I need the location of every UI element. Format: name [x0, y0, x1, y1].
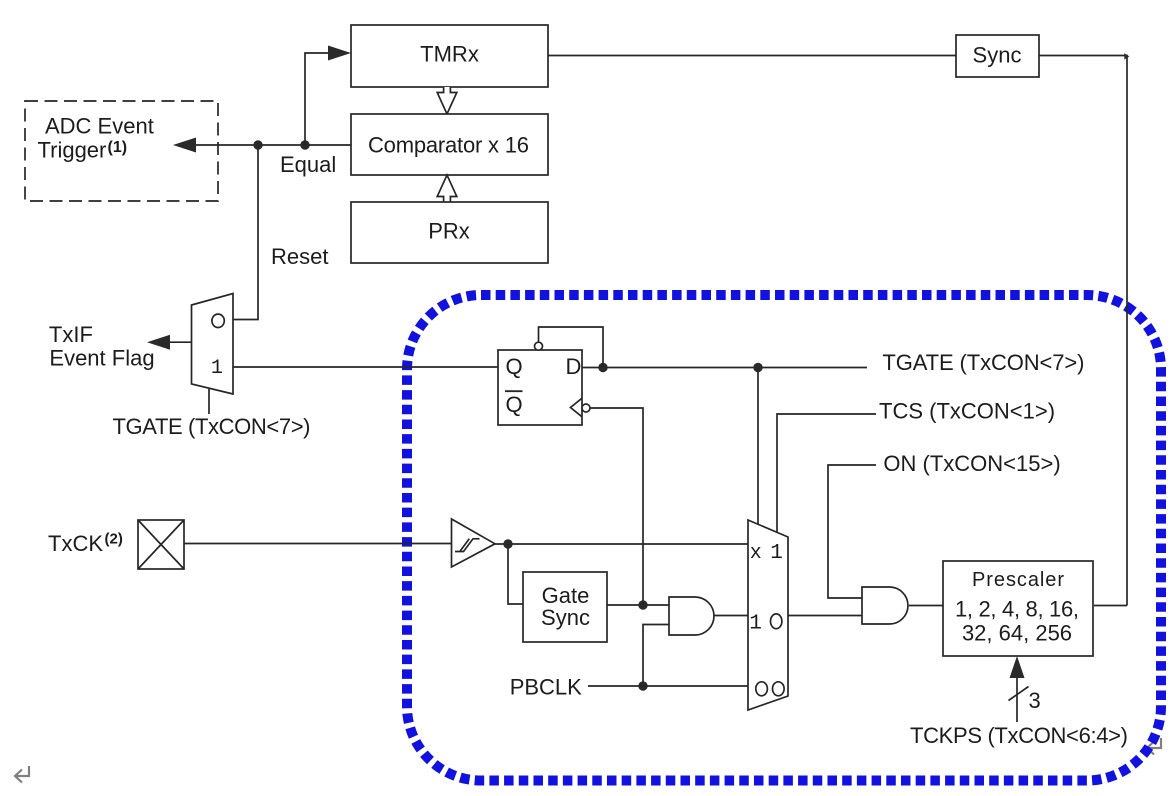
wire Reset to TxIF mux input 0: [233, 145, 258, 320]
wire TGATE select into TxIF mux: [208, 389, 210, 414]
svg-text:Trigger: Trigger: [38, 138, 107, 163]
wire Schmitt output to clock mux x1: [495, 543, 748, 545]
open arrow PRx to Comparator: [437, 175, 457, 202]
wire Prescaler output to right side: [1094, 605, 1127, 607]
mux M1 TxIF source select: [192, 294, 234, 395]
Prescaler box: [943, 561, 1093, 656]
TxCK input pad: [138, 520, 184, 569]
svg-text:Comparator x 16: Comparator x 16: [368, 133, 529, 158]
svg-text:PBCLK: PBCLK: [510, 675, 582, 700]
svg-text:TxIF: TxIF: [49, 322, 93, 347]
svg-text:(1): (1): [108, 139, 128, 156]
svg-text:Sync: Sync: [541, 605, 590, 630]
svg-text:Event Flag: Event Flag: [49, 345, 154, 370]
node junction PBCLK tap: [638, 681, 647, 690]
TCKPS select arrow into Prescaler: [1009, 656, 1029, 722]
node junction TGATE select tap: [753, 363, 762, 372]
svg-text:D: D: [566, 354, 582, 379]
wire Schmitt tap down to Gate Sync: [508, 544, 523, 604]
AND gate A1 (gate sync and): [669, 597, 714, 635]
wire TGATE select into clock mux: [757, 368, 759, 525]
wire clock mux output to AND A2: [788, 615, 862, 617]
svg-text:1, 2, 4, 8, 16,: 1, 2, 4, 8, 16,: [955, 597, 1079, 622]
open arrow TMRx to Comparator: [437, 87, 457, 114]
svg-text:1: 1: [211, 357, 223, 380]
wire ON tap: [828, 465, 876, 598]
wire TxCK to Schmitt trigger: [184, 543, 451, 545]
clock mux M2: [748, 520, 788, 710]
svg-text:TxCK: TxCK: [48, 531, 103, 556]
PRx period register box: [351, 202, 548, 263]
wire Qbar feedback to D: [539, 327, 604, 368]
node junction Schmitt output: [503, 539, 512, 548]
wire flip-flop clock from Gate Sync junction: [590, 408, 643, 605]
blue dotted peripheral bus clock region outline: [407, 295, 1161, 781]
Sync box: [956, 35, 1039, 77]
wire Sync to right side down: [1039, 56, 1127, 606]
wire Gate Sync output to AND A1: [607, 604, 669, 606]
svg-text:32, 64, 256: 32, 64, 256: [962, 621, 1072, 646]
svg-text:Sync: Sync: [973, 43, 1022, 68]
svg-text:Prescaler: Prescaler: [972, 569, 1064, 591]
svg-text:TGATE (TxCON<7>): TGATE (TxCON<7>): [113, 414, 311, 439]
svg-text:(2): (2): [105, 531, 123, 548]
return mark bottom left: [15, 766, 29, 783]
node junction on Equal wire (Reset tap): [253, 140, 262, 149]
wire TxIF mux input 1 from flip-flop Q: [233, 366, 498, 368]
Equal wire with arrow to ADC Event Trigger: [173, 138, 351, 153]
svg-text:3: 3: [1029, 688, 1041, 713]
TMRx register box: [351, 25, 548, 87]
return mark right: [1147, 738, 1161, 755]
label TxCK(2): [48, 531, 123, 557]
svg-text:TGATE (TxCON<7>): TGATE (TxCON<7>): [882, 350, 1084, 375]
svg-text:Q: Q: [506, 354, 523, 379]
wire flip-flop D line to TGATE label: [582, 367, 867, 369]
Schmitt trigger buffer: [452, 519, 496, 567]
wire AND A2 output to Prescaler: [909, 605, 943, 607]
svg-text:1: 1: [770, 542, 783, 565]
wire TMRx to Sync: [548, 55, 956, 57]
svg-text:Q: Q: [506, 392, 523, 417]
D flip-flop U1: [498, 342, 590, 425]
AND gate A2 (ON gate): [862, 587, 908, 624]
node junction on Equal wire (TMRx load tap): [300, 140, 309, 149]
wire Equal to TMRx input with arrow: [305, 46, 351, 146]
svg-text:Reset: Reset: [271, 244, 328, 269]
wire AND A1 output to clock mux 10: [714, 615, 748, 617]
ADC Event Trigger dashed box: [25, 101, 218, 201]
wire PBCLK tap to AND A1: [643, 625, 669, 687]
svg-text:Equal: Equal: [280, 152, 336, 177]
node junction D feedback: [598, 363, 607, 372]
wire TCS tap: [777, 414, 876, 532]
svg-text:TCKPS (TxCON<6:4>): TCKPS (TxCON<6:4>): [910, 723, 1128, 748]
wire TxIF mux output arrow: [147, 335, 192, 350]
svg-text:TMRx: TMRx: [420, 42, 479, 67]
svg-text:TCS (TxCON<1>): TCS (TxCON<1>): [879, 398, 1055, 423]
svg-text:x: x: [750, 542, 762, 565]
wire PBCLK to clock mux 00: [588, 685, 748, 687]
Comparator x 16 box: [351, 114, 548, 175]
svg-text:ADC Event: ADC Event: [45, 114, 154, 139]
svg-text:ON (TxCON<15>): ON (TxCON<15>): [883, 451, 1060, 476]
label TxIF Event Flag: [49, 322, 155, 370]
Gate Sync box: [523, 572, 607, 642]
svg-text:PRx: PRx: [428, 219, 470, 244]
svg-text:1: 1: [749, 613, 762, 636]
node junction Gate Sync output: [638, 600, 647, 609]
